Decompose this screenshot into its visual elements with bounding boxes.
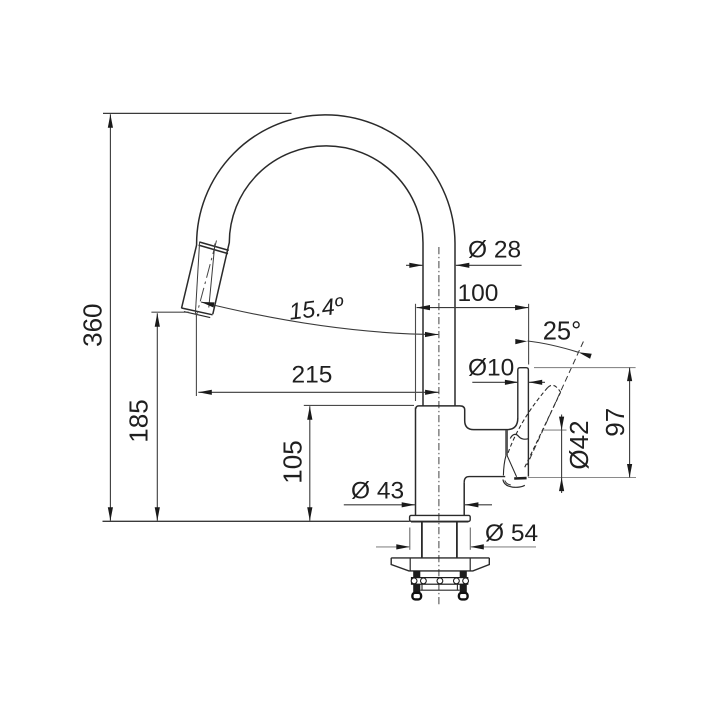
- spout gooseneck outer edge: [182, 115, 456, 406]
- dimension 97 arrow down: [627, 464, 632, 478]
- dimension 100 arrow right: [515, 305, 529, 310]
- bracket hole 5: [463, 578, 469, 584]
- dimension 25deg arc: [528, 341, 579, 352]
- dimension O54 line right: [470, 546, 536, 548]
- body spur corner to lever tube: [507, 418, 518, 430]
- wand inner line left: [195, 242, 199, 314]
- dimension 97 top extension line: [534, 367, 636, 369]
- dimension O54 line left: [376, 546, 410, 548]
- spray wand outlet rim line: [184, 312, 210, 318]
- dimension O54 left extension line: [409, 528, 411, 550]
- svg-text:105: 105: [277, 440, 307, 483]
- svg-text:360: 360: [77, 304, 107, 347]
- escutcheon plate: [391, 558, 489, 571]
- dimension 105 line: [309, 406, 311, 521]
- stud end cap left: [412, 593, 421, 600]
- dimension O28 line right: [456, 264, 522, 266]
- lever phantom right edge: [524, 392, 560, 468]
- dimension 25deg arrow right: [579, 352, 592, 359]
- spout gooseneck inner edge: [213, 146, 423, 406]
- body lower step: [464, 477, 505, 483]
- svg-text:Ø 54: Ø 54: [485, 520, 538, 547]
- lever tip front edge line 1: [505, 430, 507, 456]
- dimension 185 line: [156, 313, 158, 521]
- lever phantom left edge: [507, 388, 547, 456]
- dimension O54 right extension line: [469, 528, 471, 550]
- dimension 185 extension line: [151, 311, 188, 313]
- dimension 100 left extension line: [415, 304, 417, 401]
- mounting flange (Ø54 ring): [410, 515, 471, 521]
- dimension 360 arrow up: [108, 114, 113, 128]
- dimension O28 arrow right: [456, 263, 470, 268]
- threaded shank left wall: [421, 522, 423, 558]
- svg-text:100: 100: [458, 280, 499, 307]
- body left edge: [415, 408, 417, 516]
- shank wall continuation left: [421, 584, 423, 590]
- dimension O43 line right: [465, 504, 492, 506]
- dimension O42 arrow up to bottom line: [559, 478, 564, 492]
- dimension O28 line left: [406, 264, 423, 266]
- dimension 97 line: [629, 368, 631, 478]
- dimension 360 line: [109, 114, 111, 520]
- deck base line: [103, 520, 410, 522]
- dimension O10 line right: [529, 381, 545, 383]
- mounting nut bracket: [412, 578, 468, 585]
- lever tip front edge line 2: [507, 430, 516, 477]
- dimension 97 bottom extension line: [528, 477, 636, 479]
- mounting stud right: [460, 571, 467, 593]
- escutcheon cylinder side right: [469, 559, 471, 571]
- lever phantom cap (raised position): [548, 385, 561, 392]
- svg-text:Ø42: Ø42: [564, 420, 594, 469]
- dimension 185 arrow down: [155, 507, 160, 521]
- svg-text:97: 97: [600, 408, 630, 437]
- spray wand collar joint line 1: [199, 242, 228, 250]
- wand inner line right: [209, 244, 215, 308]
- dimension O43 line left: [344, 504, 415, 506]
- dimension 360 extension line top: [103, 112, 292, 114]
- bracket hole 1: [411, 578, 417, 584]
- dimension 25deg arrow left: [515, 339, 527, 344]
- lever axis line: [527, 342, 583, 466]
- lever tip left edge: [503, 456, 506, 476]
- shank wall continuation right: [456, 584, 458, 590]
- lever tip bottom outer arc: [503, 480, 525, 488]
- dimension O54 arrow left: [396, 544, 410, 549]
- spray wand centerline: [196, 241, 216, 317]
- dimension O42 top extension line: [543, 429, 567, 431]
- dimension 100 arrow left: [417, 305, 431, 310]
- bracket hole 4: [454, 578, 460, 584]
- dimension O10 line left: [472, 381, 518, 383]
- dimension 215 arrow right: [425, 390, 439, 395]
- bracket hole 2: [421, 578, 427, 584]
- svg-text:185: 185: [124, 399, 154, 442]
- dimension O43 arrow left: [402, 502, 416, 507]
- dimension O28 arrow left: [409, 263, 423, 268]
- spray wand collar joint line 2: [199, 245, 228, 254]
- stud end cap right: [459, 593, 468, 600]
- dimension O54 arrow right: [470, 544, 484, 549]
- dimension 215 extension line at wand: [195, 313, 197, 396]
- dimension 15.4deg arrow at wand axis: [201, 302, 214, 308]
- dimension O42 line: [561, 415, 563, 494]
- stud lower cross line: [421, 589, 460, 591]
- svg-text:215: 215: [292, 362, 333, 389]
- dimension 215 arrow left: [198, 390, 212, 395]
- flange underside lip: [411, 521, 469, 523]
- lever tip bottom face: [514, 477, 526, 480]
- dimension O10 arrow right: [529, 380, 543, 385]
- dimension O43 arrow right: [465, 502, 479, 507]
- svg-text:Ø 43: Ø 43: [351, 478, 404, 505]
- body top edge: [416, 406, 507, 430]
- mounting stud left: [413, 571, 420, 593]
- dimension 105 extension line: [304, 404, 414, 406]
- escutcheon cylinder side left: [409, 559, 411, 571]
- dimension 97 arrow up: [627, 368, 632, 382]
- svg-text:25°: 25°: [543, 318, 582, 346]
- dimension 215 line: [198, 391, 438, 393]
- bracket hole 3: [437, 578, 443, 584]
- svg-text:Ø 28: Ø 28: [468, 237, 521, 264]
- dimension O42 arrow down to top line: [559, 417, 564, 431]
- svg-text:Ø10: Ø10: [468, 355, 514, 382]
- faucet vertical centerline: [438, 247, 440, 606]
- dimension 100 line: [417, 307, 529, 309]
- dimension 185 arrow up: [155, 313, 160, 327]
- threaded shank right wall: [456, 522, 458, 558]
- dimension 15.4deg arrow at centerline: [425, 332, 438, 337]
- dimension 105 arrow down: [307, 507, 312, 521]
- dimension 105 arrow up: [307, 406, 312, 420]
- dimension 100 right extension line: [528, 304, 530, 365]
- spray wand outlet face: [182, 308, 213, 315]
- lever tip bottom inner arc: [505, 481, 511, 486]
- dimension 360 arrow down: [108, 507, 113, 521]
- dimension 15.4deg arc: [201, 302, 438, 335]
- lever neck S-curve: [510, 434, 528, 439]
- lever tube (Ø10): [518, 368, 529, 477]
- body lower right edge: [463, 482, 465, 515]
- dimension O10 arrow left: [505, 380, 519, 385]
